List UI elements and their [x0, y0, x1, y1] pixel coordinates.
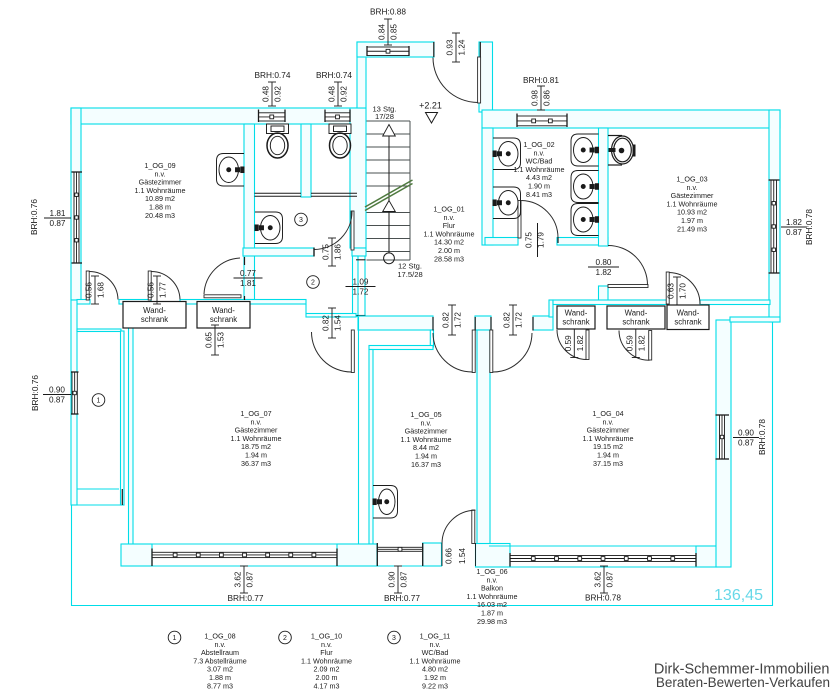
door arc balcony 1_OG_05 — [442, 510, 476, 543]
svg-text:16.37 m3: 16.37 m3 — [411, 460, 441, 469]
svg-text:BRH:0.78: BRH:0.78 — [757, 419, 767, 455]
door leaf closet 1 (0.56) — [86, 271, 89, 300]
svg-text:1.72: 1.72 — [515, 312, 524, 328]
svg-text:1.79: 1.79 — [537, 232, 546, 248]
node ref 2 Flur 1_OG_10 — [307, 276, 320, 289]
window W8 stairwell north — [367, 46, 409, 56]
closet box Wandschrank 3 — [557, 306, 595, 329]
wire passage east edge — [364, 256, 366, 317]
door arc closet 1 — [89, 272, 118, 300]
svg-text:20.48 m3: 20.48 m3 — [145, 211, 175, 220]
wall pier between doors 05 and 04 — [475, 316, 491, 330]
label block room 1_OG_09 — [134, 161, 185, 220]
node legend ref 1 — [168, 631, 181, 644]
svg-text:0.65: 0.65 — [205, 332, 214, 348]
svg-text:0.82: 0.82 — [322, 315, 331, 331]
svg-text:0.90: 0.90 — [388, 571, 397, 587]
wall west of 1_OG_02 — [482, 128, 493, 245]
wall step south of 1_OG_03 — [730, 317, 780, 322]
wire black corner Abstellraum — [121, 489, 123, 505]
svg-text:2: 2 — [283, 635, 287, 642]
svg-text:schrank: schrank — [674, 317, 701, 326]
wall passage west side — [353, 256, 359, 317]
wire south outer face middle window — [377, 565, 422, 567]
wall south 1_OG_09 part A — [77, 300, 90, 305]
jamb tick bathroom door west — [313, 248, 315, 256]
svg-text:1.54: 1.54 — [334, 315, 343, 331]
wall south-west corner 1_OG_07 — [121, 544, 152, 566]
door leaf 1_OG_09 entry (0.77) — [204, 295, 241, 298]
stairs arrow mid — [383, 201, 396, 212]
node legend ref 3 — [388, 631, 401, 644]
dim 0.82/1.72 door 1_OG_04 — [509, 305, 517, 335]
door leaf 1_OG_05 (0.82) — [472, 330, 475, 373]
svg-text:3: 3 — [392, 635, 396, 642]
svg-text:0.59: 0.59 — [625, 335, 634, 351]
wall south between windows — [337, 544, 377, 566]
svg-text:0.48: 0.48 — [262, 86, 271, 102]
jamb tick door 1_OG_04 east — [532, 317, 534, 331]
sink bathroom 1_OG_11 — [255, 212, 283, 244]
svg-text:1.82: 1.82 — [576, 335, 585, 351]
node ref 3 WC/Bad 1_OG_11 — [295, 213, 308, 226]
dim 0.84/0.85 stair window — [384, 19, 392, 45]
window W1 room 1_OG_09 west — [72, 172, 83, 263]
wall south below 05/04 wall — [476, 544, 511, 568]
wall corridor south - west of door 05 — [358, 316, 433, 330]
closet box Wandschrank 2 — [197, 302, 250, 329]
svg-text:BRH:0.81: BRH:0.81 — [523, 75, 559, 85]
svg-text:1.81: 1.81 — [50, 209, 66, 218]
door arc bathroom 1_OG_11 — [314, 212, 352, 250]
label block room 1_OG_06 — [466, 567, 517, 626]
svg-text:0.90: 0.90 — [49, 386, 65, 395]
svg-text:1: 1 — [173, 635, 177, 642]
svg-text:1.68: 1.68 — [97, 282, 106, 298]
svg-text:0.48: 0.48 — [328, 86, 337, 102]
wall corridor south - east of door 04 — [533, 316, 553, 330]
door arc 1_OG_04 — [493, 333, 532, 372]
dim 0.48/0.92 window 2 — [334, 82, 342, 106]
svg-text:schrank: schrank — [141, 315, 168, 324]
jamb tick passage top — [356, 259, 366, 261]
closet box Wandschrank 5 — [667, 305, 709, 330]
svg-text:BRH:0.77: BRH:0.77 — [228, 593, 264, 603]
stairs centerline with circle — [384, 125, 395, 264]
sink room 1_OG_09 — [217, 154, 245, 187]
door leaf closet 3 (0.59) — [586, 330, 589, 360]
window W6 balcony east — [716, 415, 730, 459]
window W11 room 1_OG_02 north — [517, 114, 567, 128]
wire south outer face east window — [510, 566, 696, 568]
svg-text:0.92: 0.92 — [274, 86, 283, 102]
level triangle symbol — [426, 113, 438, 124]
svg-text:0.87: 0.87 — [246, 571, 255, 587]
svg-text:BRH:0.74: BRH:0.74 — [316, 70, 352, 80]
door arc 1_OG_02 — [522, 201, 559, 239]
closet box Wandschrank 4 — [607, 306, 665, 329]
dim 0.56/1.68 closet door 1 — [91, 276, 99, 304]
stairs up-arrow top — [383, 125, 396, 137]
svg-text:0.82: 0.82 — [442, 312, 451, 328]
svg-text:0.87: 0.87 — [786, 228, 802, 237]
svg-text:17/28: 17/28 — [375, 112, 394, 121]
window W2 Abstellraum west — [71, 372, 79, 414]
svg-text:Wand-: Wand- — [212, 306, 235, 315]
wall south 1_OG_09 part C — [180, 300, 306, 305]
svg-text:0.82: 0.82 — [503, 312, 512, 328]
svg-text:0.86: 0.86 — [543, 90, 552, 106]
dim 0.82/1.72 door 1_OG_05 — [448, 305, 456, 335]
dim 0.66/1.54 balcony door — [442, 543, 476, 566]
stairs break line diagonal — [365, 180, 413, 211]
wire shower partition east lower — [311, 195, 357, 197]
sink room 1_OG_03 — [608, 136, 636, 166]
svg-text:Beraten-Bewerten-Verkaufen: Beraten-Bewerten-Verkaufen — [656, 675, 830, 690]
svg-text:17.5/28: 17.5/28 — [397, 270, 422, 279]
wall stairwell east corner — [479, 42, 493, 112]
svg-text:0.87: 0.87 — [606, 571, 615, 587]
wire boundary bottom — [72, 605, 774, 607]
wall jog to right section — [549, 300, 553, 317]
wall north of 1_OG_05 — [369, 346, 433, 350]
dim 0.59/1.82 closet 3 — [570, 329, 578, 358]
door leaf bathroom 1_OG_11 (0.75) — [351, 211, 354, 250]
sink room 1_OG_05 — [373, 486, 398, 519]
svg-text:0.77: 0.77 — [240, 269, 256, 278]
wire boundary right — [772, 322, 774, 606]
door leaf 1_OG_02 (0.75) — [518, 201, 521, 239]
window W3 room 1_OG_07 south — [152, 549, 337, 567]
door arc stairwell top — [433, 58, 478, 103]
wall 1_OG_02 south - east part — [557, 238, 608, 246]
svg-text:8.77 m3: 8.77 m3 — [207, 681, 233, 690]
dim 0.90/0.87 window W6 — [733, 437, 759, 439]
door leaf 1_OG_07 (0.82) — [351, 330, 354, 373]
wire wall 1_OG_07 east face — [358, 317, 360, 544]
svg-text:0.75: 0.75 — [525, 232, 534, 248]
node legend ref 2 — [279, 631, 292, 644]
wall connector at door 1_OG_05 west jamb — [430, 330, 433, 347]
dim 0.90/0.87 window W4 — [394, 566, 402, 593]
svg-text:1.70: 1.70 — [679, 283, 688, 299]
svg-text:Wand-: Wand- — [677, 308, 700, 317]
svg-text:136,45: 136,45 — [714, 587, 763, 604]
dim 3.62/0.87 window W3 — [240, 566, 248, 593]
svg-text:0.59: 0.59 — [564, 335, 573, 351]
svg-text:0.85: 0.85 — [390, 24, 399, 40]
wire south inner line 1_OG_04 — [489, 545, 697, 547]
svg-text:1.77: 1.77 — [159, 282, 168, 298]
wall 1_OG_02 south - west part — [485, 238, 518, 246]
wall west of 1_OG_07 — [129, 316, 134, 545]
label block room 1_OG_01 — [423, 205, 474, 264]
wall between 1_OG_05 and 1_OG_07 — [369, 350, 373, 545]
toilet WC stall 1 — [267, 124, 289, 158]
label legend 1_OG_11 — [409, 632, 460, 691]
svg-text:0.80: 0.80 — [596, 258, 612, 267]
svg-text:1.82: 1.82 — [637, 335, 646, 351]
svg-text:1: 1 — [97, 398, 101, 405]
svg-text:21.49 m3: 21.49 m3 — [677, 224, 707, 233]
svg-text:9.22 m3: 9.22 m3 — [422, 681, 448, 690]
window W9 WC stall north 1 — [259, 110, 286, 123]
dim 0.63/1.70 closet door 3 — [673, 277, 681, 305]
wall stub below door to 1_OG_03 — [599, 286, 609, 302]
svg-text:1.24: 1.24 — [458, 39, 467, 55]
dim 0.56/1.77 closet door 2 — [153, 276, 161, 304]
wall south of 1_OG_03 west part — [553, 300, 667, 305]
svg-text:schrank: schrank — [562, 318, 589, 327]
svg-text:1.82: 1.82 — [786, 218, 802, 227]
svg-text:1.54: 1.54 — [458, 548, 467, 564]
wall between bathroom and stairwell — [350, 108, 366, 248]
wall west upper (room 1_OG_09) — [71, 108, 81, 300]
svg-text:schrank: schrank — [210, 315, 237, 324]
toilet WC stall 2 — [329, 124, 351, 158]
window W7 room 1_OG_03 east — [769, 180, 780, 273]
svg-text:Wand-: Wand- — [625, 309, 648, 318]
label legend 1_OG_08 — [193, 632, 247, 691]
svg-text:Wand-: Wand- — [565, 309, 588, 318]
window W4 room 1_OG_05 south — [377, 543, 422, 566]
svg-text:BRH:0.76: BRH:0.76 — [29, 199, 39, 235]
door leaf stairwell top — [478, 57, 481, 103]
svg-text:0.75: 0.75 — [322, 244, 331, 260]
svg-text:0.63: 0.63 — [667, 283, 676, 299]
wire south inner line 1_OG_07 — [133, 543, 373, 545]
wall west lower (Abstellraum) — [71, 300, 77, 505]
wire Abstellraum south — [71, 504, 122, 506]
sink 1_OG_02 east 1 — [571, 134, 599, 166]
sink 1_OG_02 west 1 — [493, 138, 521, 170]
svg-text:BRH:0.74: BRH:0.74 — [255, 70, 291, 80]
door arc closet 4 — [619, 331, 650, 361]
jamb tick stair door east — [479, 42, 481, 57]
dim 0.98/0.86 window 1_OG_02 — [537, 86, 545, 110]
door arc closet 2 — [151, 272, 180, 300]
svg-text:0.87: 0.87 — [400, 571, 409, 587]
door arc 1_OG_09 entry (0.77) — [204, 258, 240, 294]
label block room 1_OG_05 — [400, 410, 451, 469]
wall stairwell west upper — [357, 42, 366, 108]
jamb tick stair door west — [433, 42, 435, 57]
label block room 1_OG_03 — [666, 175, 717, 234]
svg-text:0.56: 0.56 — [147, 282, 156, 298]
svg-text:Wand-: Wand- — [143, 306, 166, 315]
wall south of 1_OG_03 east part — [700, 300, 770, 305]
svg-text:37.15 m3: 37.15 m3 — [593, 459, 623, 468]
label block room 1_OG_02 — [513, 140, 564, 199]
svg-text:0.56: 0.56 — [85, 282, 94, 298]
wall top of room 1_OG_09 block — [71, 108, 358, 124]
svg-text:28.58 m3: 28.58 m3 — [434, 254, 464, 263]
svg-text:1.82: 1.82 — [596, 268, 612, 277]
stairs treads and outline — [367, 121, 411, 260]
dim 0.65/1.53 — [211, 325, 219, 355]
svg-text:BRH:0.88: BRH:0.88 — [370, 7, 406, 17]
dim extension tick door 1_OG_09 upper — [244, 257, 246, 265]
svg-text:36.37 m3: 36.37 m3 — [241, 459, 271, 468]
wall south-east corner 1_OG_04 — [696, 546, 717, 567]
svg-text:0.87: 0.87 — [49, 396, 65, 405]
wall thin over door 1_OG_07 — [306, 314, 356, 318]
wall stairwell north — [357, 42, 434, 57]
dim extension tick door 1_OG_09 lower — [244, 296, 246, 300]
label block room 1_OG_07 — [230, 409, 281, 468]
door leaf 1_OG_04 (0.82) — [490, 330, 493, 373]
door arc 1_OG_03 entry — [608, 246, 648, 286]
window W5 room 1_OG_04 south — [510, 553, 696, 567]
svg-text:4.17 m3: 4.17 m3 — [314, 681, 340, 690]
wire wall jog at x306 — [305, 304, 307, 314]
wall between 1_OG_09 and WC stalls — [244, 124, 255, 300]
door arc 1_OG_07 — [312, 332, 352, 372]
svg-text:2: 2 — [311, 280, 315, 287]
dim 0.48/0.92 window 1 — [268, 82, 276, 106]
svg-text:0.66: 0.66 — [445, 548, 454, 564]
wall south jamb west of balcony door — [423, 543, 442, 566]
wall between 1_OG_05 and 1_OG_04 — [477, 330, 490, 545]
dim 1.09/1.72 opening corridor — [346, 286, 376, 288]
door leaf 1_OG_03 entry (0.80) — [608, 285, 648, 288]
wall bathroom south east part — [352, 248, 366, 256]
wall Abstellraum east — [121, 331, 125, 505]
svg-text:0.98: 0.98 — [531, 90, 540, 106]
wall between 1_OG_02 and 1_OG_03 — [599, 128, 609, 246]
svg-text:1.81: 1.81 — [240, 279, 256, 288]
door leaf closet 4 (0.59) — [649, 331, 652, 361]
wire Abstellraum inner south — [77, 488, 119, 490]
svg-text:BRH:0.77: BRH:0.77 — [384, 593, 420, 603]
door leaf closet 2 (0.56) — [148, 271, 151, 300]
dim 1.81/0.87 window W1 — [44, 217, 71, 219]
dim 0.80/1.82 door 1_OG_03 — [588, 266, 619, 268]
svg-text:0.93: 0.93 — [446, 39, 455, 55]
wire shower partition west upper — [255, 192, 302, 194]
wall balcony east — [716, 320, 731, 567]
dim 0.93/1.24 stair door — [452, 33, 460, 62]
dim 0.77/1.81 door 1_OG_09 — [234, 277, 263, 279]
svg-text:1.09: 1.09 — [353, 278, 369, 287]
wall partition between WC stalls — [301, 124, 311, 197]
svg-text:0.90: 0.90 — [738, 429, 754, 438]
svg-text:3: 3 — [299, 217, 303, 224]
svg-text:BRH:0.76: BRH:0.76 — [30, 375, 40, 411]
door arc closet 1_OG_03 — [669, 273, 700, 305]
sink 1_OG_02 east 2 — [571, 171, 599, 203]
wall east (room 1_OG_03) — [769, 110, 780, 322]
svg-text:0.92: 0.92 — [340, 86, 349, 102]
svg-text:0.87: 0.87 — [738, 439, 754, 448]
svg-text:1.86: 1.86 — [334, 244, 343, 260]
svg-text:3.62: 3.62 — [594, 571, 603, 587]
svg-text:schrank: schrank — [622, 318, 649, 327]
dim 0.75/1.79 door 1_OG_02 — [537, 223, 539, 257]
wire south outer face west window — [152, 565, 337, 567]
svg-text:29.98 m3: 29.98 m3 — [477, 617, 507, 626]
svg-text:3.62: 3.62 — [234, 571, 243, 587]
dim 1.82/0.87 window W7 — [781, 226, 807, 228]
sink 1_OG_02 east 3 — [571, 204, 599, 236]
closet box Wandschrank 1 — [123, 302, 186, 329]
jamb tick 1_OG_02 door east — [557, 237, 559, 243]
svg-text:1.72: 1.72 — [353, 288, 369, 297]
dim 0.75/1.86 door bathroom — [328, 238, 336, 266]
door leaf balcony 1_OG_05 (0.66) — [472, 510, 475, 544]
svg-text:+2.21: +2.21 — [419, 101, 442, 111]
dim 3.62/0.87 window W5 — [600, 566, 608, 593]
wall bathroom south west part — [243, 248, 314, 256]
wall Abstellraum north — [77, 329, 121, 332]
svg-text:1.53: 1.53 — [217, 332, 226, 348]
label legend 1_OG_10 — [301, 632, 352, 691]
jamb tick door 1_OG_05 east — [474, 317, 476, 331]
jamb tick door 1_OG_05 west — [432, 317, 434, 331]
jamb tick door 1_OG_04 west — [490, 317, 492, 331]
svg-text:0.87: 0.87 — [50, 219, 66, 228]
label block room 1_OG_04 — [582, 409, 633, 468]
svg-text:0.84: 0.84 — [378, 24, 387, 40]
wall north of right block — [482, 110, 780, 128]
door leaf closet 1_OG_03 (0.63) — [666, 272, 669, 304]
dim 0.90/0.87 window W2 — [43, 394, 71, 396]
svg-text:8.41 m3: 8.41 m3 — [526, 190, 552, 199]
door arc 1_OG_05 — [433, 333, 472, 372]
wire shower partition east upper — [311, 192, 357, 194]
jamb tick bathroom door opening — [313, 248, 315, 257]
svg-text:1.72: 1.72 — [454, 312, 463, 328]
wall south 1_OG_09 part B — [119, 300, 151, 305]
wire shower partition west lower — [255, 195, 302, 197]
jamb tick passage bottom — [356, 315, 366, 317]
dim 0.59/1.82 closet 4 — [632, 329, 640, 358]
sink 1_OG_02 west 2 — [493, 187, 521, 219]
svg-text:BRH:0.78: BRH:0.78 — [585, 593, 621, 603]
door arc closet 3 — [557, 330, 587, 360]
node ref 1 Abstellraum — [92, 394, 105, 407]
dim 0.82/1.54 door 1_OG_07 — [328, 308, 336, 338]
wire boundary left — [71, 108, 73, 606]
window W10 WC stall north 2 — [325, 110, 350, 123]
